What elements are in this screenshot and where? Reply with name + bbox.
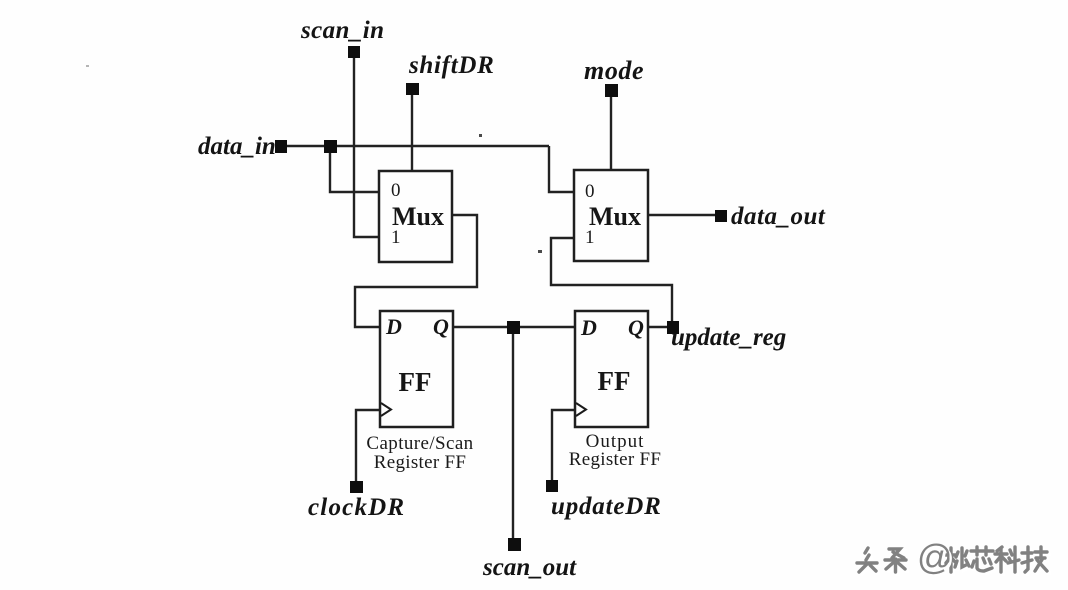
- svg-text:FF: FF: [598, 366, 631, 396]
- svg-text:scan_out: scan_out: [482, 554, 577, 581]
- svg-text:Q: Q: [628, 315, 644, 340]
- svg-text:D: D: [385, 314, 402, 339]
- svg-text:mode: mode: [584, 56, 644, 85]
- svg-text:0: 0: [585, 181, 595, 202]
- svg-text:D: D: [580, 315, 597, 340]
- svg-text:update_reg: update_reg: [671, 324, 786, 351]
- svg-text:clockDR: clockDR: [308, 494, 405, 521]
- svg-text:@: @: [917, 538, 953, 577]
- svg-text:Register FF: Register FF: [374, 452, 467, 473]
- svg-text:FF: FF: [399, 367, 432, 397]
- svg-text:data_out: data_out: [731, 203, 826, 230]
- svg-text:data_in: data_in: [198, 133, 276, 160]
- svg-text:Capture/Scan: Capture/Scan: [366, 433, 473, 454]
- svg-text:Register FF: Register FF: [569, 449, 662, 470]
- svg-text:0: 0: [391, 180, 401, 201]
- svg-text:Q: Q: [433, 314, 449, 339]
- svg-text:shiftDR: shiftDR: [408, 52, 494, 79]
- svg-text:1: 1: [585, 227, 595, 248]
- svg-text:scan_in: scan_in: [300, 17, 384, 44]
- svg-text:Mux: Mux: [589, 202, 641, 231]
- svg-text:1: 1: [391, 227, 401, 248]
- svg-text:updateDR: updateDR: [551, 493, 662, 520]
